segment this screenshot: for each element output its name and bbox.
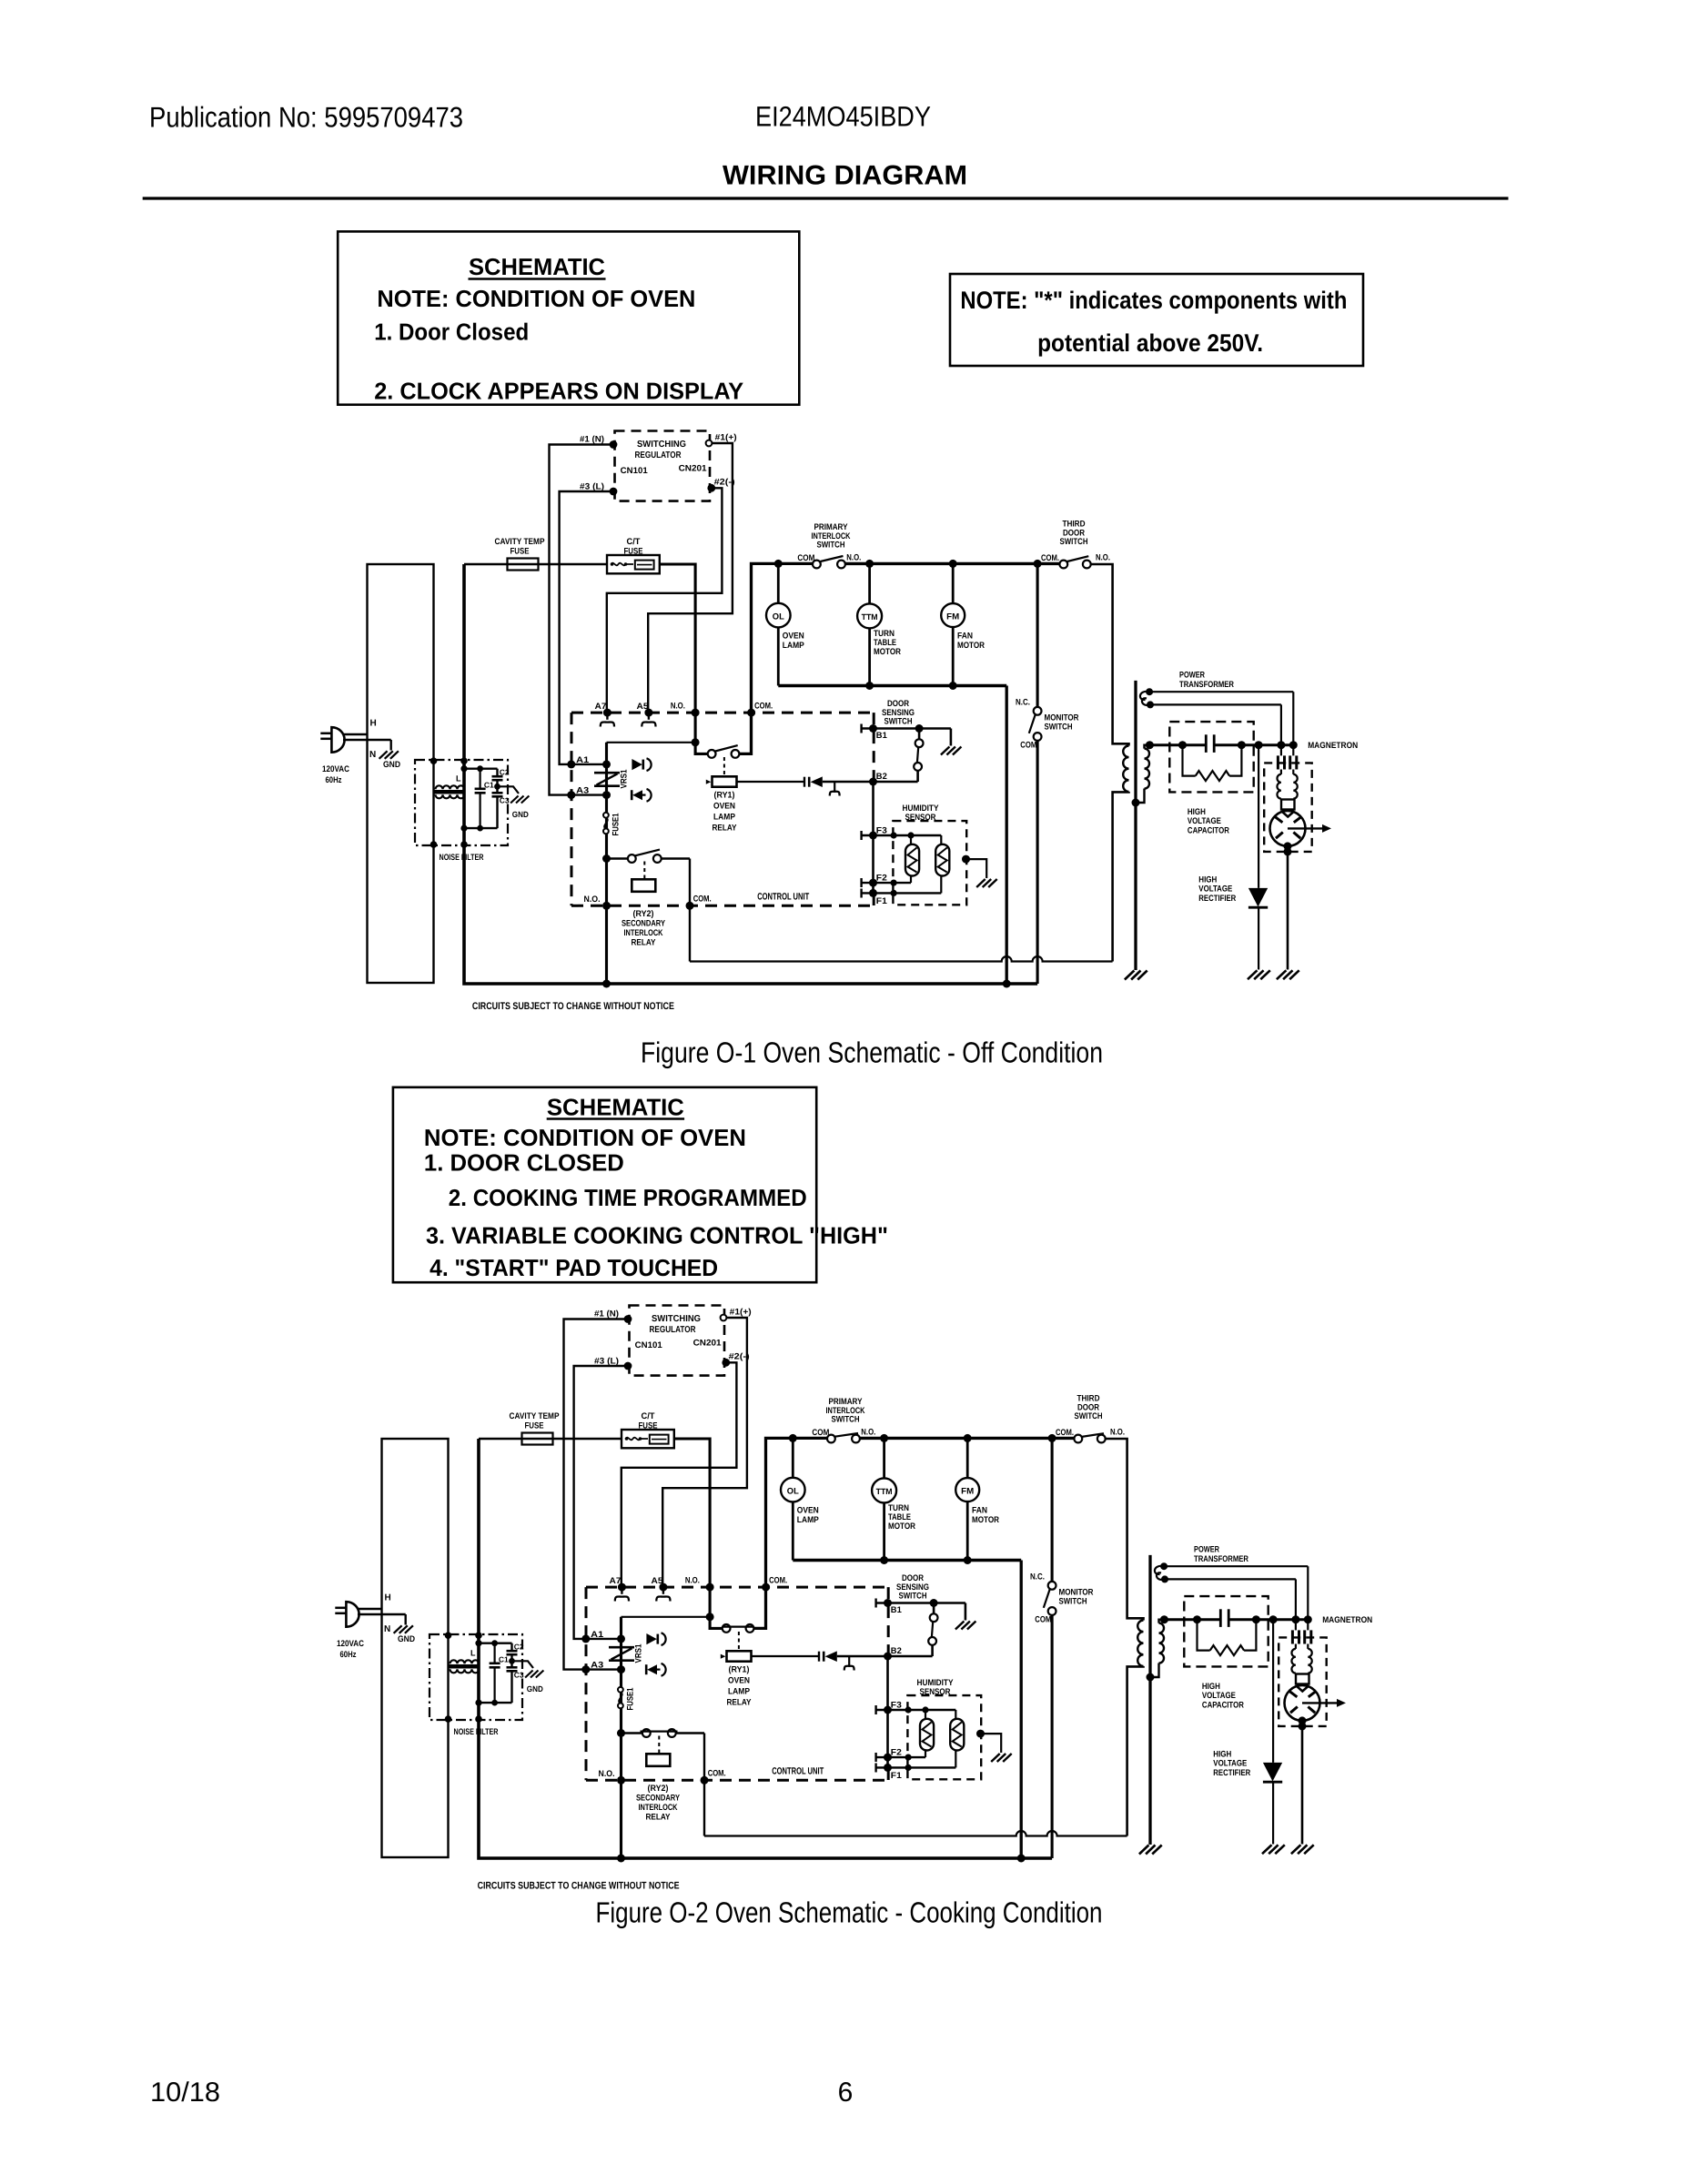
transformer primary winding: [1123, 746, 1128, 792]
diode D1: [646, 1633, 656, 1644]
svg-text:VOLTAGE: VOLTAGE: [1202, 1691, 1236, 1701]
bleed resistor: [1198, 1620, 1210, 1651]
svg-text:LAMP: LAMP: [728, 1687, 751, 1697]
AC plug: [346, 1602, 359, 1627]
capacitor C2: [510, 1643, 512, 1652]
ground GND at plug: [405, 1614, 407, 1625]
junction: [1304, 1615, 1312, 1623]
junction: [1299, 1716, 1307, 1724]
monitor switch rail lower: [1036, 741, 1039, 984]
svg-text:60Hz: 60Hz: [326, 775, 342, 785]
wire #3(L): [574, 1366, 629, 1639]
pin F1: [874, 1764, 876, 1773]
wire B1 to ground: [965, 1603, 967, 1621]
svg-text:3. VARIABLE COOKING CONTROL "H: 3. VARIABLE COOKING CONTROL "HIGH": [426, 1222, 888, 1249]
capacitor C3: [507, 1666, 518, 1669]
svg-text:SCHEMATIC: SCHEMATIC: [469, 253, 605, 280]
connector bars: [804, 777, 805, 787]
magnetron filament chokes: [1280, 770, 1282, 774]
svg-text:FAN: FAN: [972, 1506, 987, 1516]
inductor L: [450, 1660, 480, 1663]
sensor element left: [910, 835, 912, 844]
svg-text:Figure O-1 Oven Schematic - Of: Figure O-1 Oven Schematic - Off Conditio…: [641, 1036, 1103, 1069]
wire fuse to control unit N.O.: [660, 564, 708, 753]
svg-text:SWITCH: SWITCH: [1045, 723, 1073, 733]
svg-text:L: L: [470, 1649, 476, 1658]
junction: [445, 1632, 452, 1639]
node A1: [581, 1634, 590, 1643]
svg-text:REGULATOR: REGULATOR: [635, 450, 682, 460]
capacitor C1: [493, 1643, 495, 1663]
wire secondary bottom: [1136, 789, 1145, 804]
ground magnetron: [1291, 1845, 1301, 1854]
wire control unit right rail: [872, 782, 874, 893]
transformer filament lead upper: [1146, 688, 1153, 695]
svg-text:6: 6: [838, 2078, 854, 2108]
svg-text:NOTE: "*" indicates components: NOTE: "*" indicates components with: [960, 287, 1347, 314]
svg-text:A5: A5: [652, 1576, 664, 1586]
svg-text:FUSE: FUSE: [624, 547, 643, 557]
diode D2: [631, 790, 633, 800]
relay contact RY2: [622, 1732, 642, 1734]
svg-text:SWITCH: SWITCH: [884, 717, 913, 727]
feedthrough capacitors: [1277, 755, 1279, 769]
high voltage rectifier D3: [1258, 745, 1259, 888]
junction: [1017, 1855, 1026, 1863]
svg-text:RECTIFIER: RECTIFIER: [1198, 894, 1236, 904]
ground magnetron: [1277, 970, 1287, 979]
junction: [884, 1653, 892, 1661]
junction: [617, 1855, 625, 1863]
svg-text:CN201: CN201: [679, 464, 708, 474]
svg-text:(RY1): (RY1): [714, 791, 735, 801]
relay contact RY1: [723, 1624, 731, 1633]
wire rail A1: [620, 1617, 622, 1858]
AC plug: [331, 727, 344, 753]
pin #3(L): [624, 1362, 632, 1370]
cavity temp fuse: [522, 1433, 553, 1445]
wire filament right drop: [1307, 1566, 1309, 1630]
svg-text:RELAY: RELAY: [727, 1698, 753, 1708]
wire fuse to control unit N.O.: [674, 1439, 723, 1628]
humidity sensor box: [893, 821, 966, 905]
junction: [1193, 1615, 1201, 1623]
wire main bottom bus: [464, 564, 1037, 984]
wire: [464, 827, 498, 829]
junction: [1289, 741, 1298, 749]
wire: [479, 1642, 512, 1643]
power cord loop: [382, 1439, 449, 1857]
svg-text:WIRING DIAGRAM: WIRING DIAGRAM: [723, 161, 967, 191]
pin #1(+): [721, 1315, 727, 1321]
ground GND in noise filter: [494, 784, 500, 790]
svg-text:GND: GND: [527, 1684, 543, 1694]
svg-text:C3: C3: [514, 1671, 524, 1680]
diode D4: [825, 1651, 837, 1662]
svg-text:2. CLOCK APPEARS ON DISPLAY: 2. CLOCK APPEARS ON DISPLAY: [374, 378, 743, 405]
control unit border left: [571, 713, 573, 905]
wire magnetron cathode to ground: [1287, 846, 1289, 970]
door switch contacts: [918, 729, 921, 740]
wire third door switch to transformer: [1091, 564, 1129, 746]
wire jumper to N.O.: [622, 1616, 711, 1618]
svg-text:A1: A1: [591, 1630, 604, 1640]
junction: [774, 560, 783, 568]
junction: [1277, 741, 1285, 749]
transformer core line: [1134, 681, 1137, 970]
magnetron tube V1: [1296, 1674, 1309, 1684]
capacitor C2: [496, 769, 498, 777]
wire RY1 coil row: [737, 781, 805, 783]
monitor switch rail: [1036, 563, 1039, 707]
wire B2 row: [837, 1655, 933, 1658]
wire rail A1: [605, 743, 608, 984]
svg-text:H: H: [370, 719, 377, 729]
svg-text:OVEN: OVEN: [713, 802, 735, 812]
varistor VRS1: [594, 772, 620, 774]
svg-text:CIRCUITS SUBJECT TO CHANGE WIT: CIRCUITS SUBJECT TO CHANGE WITHOUT NOTIC…: [478, 1880, 680, 1891]
svg-text:N.C.: N.C.: [1030, 1572, 1045, 1582]
svg-text:NOTE: CONDITION OF OVEN: NOTE: CONDITION OF OVEN: [424, 1124, 746, 1151]
svg-text:F3: F3: [876, 826, 887, 836]
svg-text:C1: C1: [484, 781, 494, 790]
capacitor C3: [492, 792, 503, 794]
wire filament left drop: [1280, 704, 1282, 755]
pin N.O. lower: [602, 902, 611, 910]
pin A5: [644, 709, 652, 717]
svg-text:VOLTAGE: VOLTAGE: [1213, 1759, 1247, 1769]
wire RY2 to COM: [689, 859, 691, 962]
magnetron box: [1264, 763, 1312, 852]
pin A7: [603, 709, 612, 717]
wire top bus: [845, 562, 1060, 565]
wire HV line right: [1214, 743, 1293, 746]
junction: [602, 980, 611, 988]
svg-text:RELAY: RELAY: [713, 824, 738, 834]
junction: [880, 1434, 888, 1442]
magnetron antenna arrow: [1302, 1702, 1337, 1704]
svg-text:L: L: [456, 774, 461, 784]
wire: [464, 768, 498, 770]
svg-text:#3 (L): #3 (L): [580, 482, 604, 492]
svg-text:#1 (N): #1 (N): [594, 1309, 619, 1319]
svg-text:C2: C2: [500, 768, 510, 777]
humidity sensor box: [907, 1695, 981, 1779]
svg-text:CONTROL UNIT: CONTROL UNIT: [772, 1766, 824, 1777]
svg-text:TTM: TTM: [862, 612, 878, 622]
junction: [964, 1434, 972, 1442]
relay contact RY2: [607, 857, 628, 859]
wire filament right drop: [1292, 692, 1294, 755]
junction: [915, 724, 924, 733]
pin F3: [874, 1705, 876, 1714]
svg-text:INTERLOCK: INTERLOCK: [639, 1803, 678, 1813]
svg-text:N.C.: N.C.: [1016, 698, 1030, 708]
junction: [1291, 1615, 1299, 1623]
svg-text:1. DOOR CLOSED: 1. DOOR CLOSED: [424, 1149, 624, 1177]
transformer secondary winding: [1159, 1623, 1165, 1663]
svg-text:SWITCH: SWITCH: [1060, 537, 1088, 547]
pin A5: [659, 1583, 667, 1592]
svg-text:FUSE: FUSE: [525, 1421, 544, 1431]
pin #1(+): [706, 440, 713, 447]
control unit border right: [887, 1587, 890, 1655]
junction: [692, 709, 700, 717]
svg-text:FUSE1: FUSE1: [626, 1687, 636, 1711]
junction: [1284, 842, 1292, 850]
svg-text:SENSOR: SENSOR: [905, 813, 936, 823]
svg-text:FM: FM: [961, 1486, 974, 1496]
power cord loop: [368, 564, 434, 983]
svg-text:N.O.: N.O.: [584, 895, 601, 905]
oven lamp OL: [792, 1438, 794, 1477]
svg-text:RECTIFIER: RECTIFIER: [1213, 1768, 1250, 1778]
varistor VRS1: [609, 1646, 634, 1649]
fan motor FM: [952, 563, 955, 603]
svg-text:N: N: [384, 1624, 390, 1634]
wire COM rail to top bus: [754, 1438, 827, 1628]
wire from #1(+) to A5: [648, 443, 733, 713]
capacitor HV plates: [1205, 734, 1208, 753]
control unit border bottom: [571, 905, 874, 907]
oven lamp OL: [777, 563, 780, 602]
wire lamp return bus: [793, 1559, 1021, 1562]
wire #3(L): [560, 491, 614, 764]
svg-text:N.O.: N.O.: [685, 1576, 700, 1586]
svg-text:POWER: POWER: [1194, 1545, 1219, 1555]
svg-text:CAVITY TEMP: CAVITY TEMP: [495, 537, 546, 547]
wire primary bottom: [1113, 792, 1129, 962]
relay contact RY1: [708, 750, 716, 758]
svg-text:COM: COM: [1020, 741, 1036, 751]
wire jumper to N.O.: [607, 742, 696, 743]
svg-text:N.O.: N.O.: [671, 702, 685, 712]
wire neutral drop: [1020, 1561, 1023, 1859]
junction: [602, 760, 611, 768]
high voltage capacitor box: [1169, 722, 1253, 792]
ground transformer: [1139, 1845, 1149, 1855]
bleed resistor: [1183, 745, 1196, 776]
svg-text:COM: COM: [1035, 1615, 1051, 1625]
schematic note box 1: [338, 231, 799, 404]
svg-text:FAN: FAN: [957, 632, 973, 642]
transformer primary winding: [1137, 1621, 1143, 1666]
junction: [1003, 980, 1011, 988]
pin F3: [860, 831, 862, 840]
diode D2: [645, 1664, 648, 1674]
node A3: [567, 791, 575, 799]
wire primary bottom: [1127, 1666, 1144, 1836]
switching regulator U1: [615, 431, 711, 501]
wire RY1 coil row: [752, 1655, 820, 1657]
svg-text:#1 (N): #1 (N): [580, 435, 604, 445]
svg-text:REGULATOR: REGULATOR: [650, 1325, 697, 1335]
svg-text:C/T: C/T: [642, 1411, 655, 1421]
svg-text:OL: OL: [787, 1486, 799, 1496]
pin #2(-): [722, 1359, 730, 1367]
svg-text:COM.: COM.: [1041, 553, 1059, 563]
svg-text:SWITCH: SWITCH: [832, 1415, 860, 1425]
C/T fuse: [607, 555, 660, 573]
svg-text:SWITCH: SWITCH: [899, 1592, 927, 1602]
svg-text:CN101: CN101: [635, 1340, 663, 1350]
svg-text:B2: B2: [891, 1646, 902, 1656]
svg-text:SECONDARY: SECONDARY: [636, 1794, 681, 1804]
svg-text:#2(-): #2(-): [729, 1352, 750, 1362]
svg-text:CAPACITOR: CAPACITOR: [1202, 1701, 1244, 1711]
svg-text:MAGNETRON: MAGNETRON: [1322, 1615, 1372, 1625]
svg-text:TRANSFORMER: TRANSFORMER: [1179, 680, 1234, 690]
control unit border left: [585, 1587, 588, 1780]
wire neutral drop: [1006, 686, 1008, 985]
svg-text:F3: F3: [891, 1701, 902, 1711]
control unit border top: [571, 712, 874, 714]
pin B1: [860, 724, 862, 733]
junction: [789, 1434, 797, 1442]
svg-text:(RY2): (RY2): [648, 1784, 669, 1794]
control unit border right lower: [873, 894, 875, 905]
wire HV line: [1164, 1618, 1220, 1621]
wire secondary top: [1159, 1620, 1165, 1623]
junction: [1252, 1615, 1260, 1623]
wire RY2 COM to third door switch: [704, 1831, 1127, 1835]
C/T fuse: [622, 1430, 674, 1448]
svg-text:N.O.: N.O.: [846, 553, 861, 563]
door switch contacts: [933, 1603, 935, 1614]
svg-text:LAMP: LAMP: [783, 641, 805, 651]
svg-text:OL: OL: [773, 612, 784, 622]
ground rectifier: [1262, 1845, 1272, 1854]
svg-text:SWITCH: SWITCH: [1059, 1597, 1087, 1607]
pin #3(L): [610, 488, 618, 496]
junction: [1048, 1434, 1056, 1442]
wire B1 to ground: [950, 729, 953, 746]
svg-text:10/18: 10/18: [150, 2078, 220, 2108]
junction: [617, 1634, 625, 1643]
control unit border bottom: [586, 1779, 888, 1782]
transformer filament lead lower: [1147, 701, 1154, 708]
svg-text:LAMP: LAMP: [797, 1515, 820, 1525]
svg-text:MOTOR: MOTOR: [874, 647, 901, 657]
junction: [692, 738, 700, 746]
junction: [949, 560, 957, 568]
svg-text:CAPACITOR: CAPACITOR: [1188, 826, 1229, 836]
svg-text:TRANSFORMER: TRANSFORMER: [1194, 1554, 1248, 1564]
magnetron filament chokes: [1295, 1644, 1297, 1649]
junction: [1034, 560, 1042, 568]
svg-text:SWITCH: SWITCH: [1075, 1411, 1103, 1421]
svg-text:INTERLOCK: INTERLOCK: [624, 928, 663, 938]
wire: [464, 563, 607, 566]
junction: [1132, 799, 1140, 807]
svg-text:potential above 250V.: potential above 250V.: [1037, 329, 1263, 357]
svg-text:VOLTAGE: VOLTAGE: [1198, 885, 1232, 895]
pin #1(N): [624, 1315, 632, 1323]
junction: [602, 791, 611, 799]
svg-text:LAMP: LAMP: [713, 813, 736, 823]
svg-text:#2(-): #2(-): [714, 478, 735, 488]
svg-text:Publication No: 5995709473: Publication No: 5995709473: [149, 101, 463, 134]
wire secondary bottom: [1150, 1663, 1159, 1678]
junction: [706, 1583, 714, 1592]
svg-text:RELAY: RELAY: [632, 938, 657, 948]
svg-text:FM: FM: [946, 612, 959, 622]
junction: [1299, 1722, 1307, 1730]
wire HV line right: [1228, 1618, 1308, 1621]
high voltage rectifier D3: [1272, 1620, 1274, 1763]
svg-text:FUSE: FUSE: [639, 1421, 658, 1431]
svg-text:N: N: [369, 750, 376, 760]
svg-text:A5: A5: [637, 702, 650, 712]
svg-text:1. Door Closed: 1. Door Closed: [374, 318, 529, 346]
ground humidity sensor: [976, 879, 986, 887]
wire third door switch to transformer: [1106, 1439, 1144, 1621]
ground humidity sensor: [991, 1754, 1000, 1762]
transformer secondary winding: [1145, 749, 1150, 789]
svg-text:F2: F2: [876, 874, 887, 884]
pin #1(N): [610, 440, 618, 449]
wire COM rail to top bus: [740, 563, 813, 753]
diode D4: [811, 776, 823, 787]
svg-text:H: H: [385, 1593, 391, 1603]
junction: [930, 1599, 938, 1607]
junction: [865, 560, 874, 568]
svg-text:OVEN: OVEN: [797, 1506, 819, 1516]
svg-text:EI24MO45IBDY: EI24MO45IBDY: [755, 101, 931, 133]
junction: [686, 902, 694, 910]
wire top bus: [860, 1437, 1075, 1440]
noise filter box: [415, 760, 508, 845]
svg-text:A7: A7: [595, 702, 607, 712]
svg-text:GND: GND: [398, 1634, 415, 1644]
svg-text:SCHEMATIC: SCHEMATIC: [547, 1094, 684, 1121]
svg-text:#1(+): #1(+): [715, 433, 737, 443]
svg-text:N.O.: N.O.: [599, 1769, 615, 1779]
svg-text:CAVITY TEMP: CAVITY TEMP: [510, 1411, 561, 1421]
junction: [1269, 1615, 1278, 1623]
node A3: [581, 1665, 590, 1673]
svg-text:NOISE FILTER: NOISE FILTER: [454, 1727, 499, 1737]
svg-text:SWITCH: SWITCH: [817, 541, 845, 551]
transformer filament lead lower: [1161, 1575, 1168, 1582]
svg-text:FUSE: FUSE: [510, 547, 530, 557]
feedthrough capacitors: [1291, 1630, 1294, 1643]
svg-text:60Hz: 60Hz: [340, 1650, 357, 1660]
ground door switch: [941, 747, 950, 755]
svg-text:C1: C1: [499, 1655, 509, 1664]
pin COM. of RY1: [747, 709, 755, 717]
junction: [869, 778, 877, 786]
junction: [1146, 741, 1154, 749]
svg-text:N.O.: N.O.: [861, 1428, 875, 1438]
svg-text:COM.: COM.: [708, 1769, 726, 1779]
svg-text:COM.: COM.: [693, 895, 712, 905]
svg-text:2. COOKING TIME PROGRAMMED: 2. COOKING TIME PROGRAMMED: [449, 1184, 807, 1211]
pin F2: [860, 878, 862, 887]
wire secondary top: [1145, 745, 1150, 749]
connector stub: [834, 782, 835, 791]
svg-text:B1: B1: [876, 731, 888, 741]
junction: [1255, 741, 1263, 749]
switching regulator U1: [630, 1306, 725, 1376]
relay coil RY1: [738, 1632, 740, 1651]
junction: [1147, 1673, 1155, 1682]
schematic note box 2: [393, 1087, 816, 1282]
svg-text:MOTOR: MOTOR: [957, 641, 985, 651]
svg-text:TTM: TTM: [876, 1487, 893, 1496]
ground GND at plug: [390, 740, 392, 751]
svg-text:SECONDARY: SECONDARY: [622, 919, 666, 929]
